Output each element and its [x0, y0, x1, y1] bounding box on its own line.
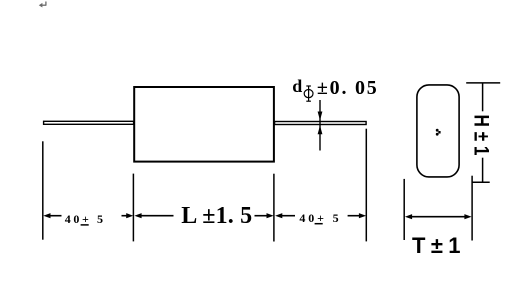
- svg-text:d: d: [292, 76, 302, 96]
- svg-text:L ±1. 5: L ±1. 5: [181, 203, 252, 229]
- svg-text:H ± 1: H ± 1: [470, 115, 493, 156]
- svg-text:40+ 5: 40+ 5: [65, 212, 103, 226]
- svg-text:T ± 1: T ± 1: [412, 233, 461, 258]
